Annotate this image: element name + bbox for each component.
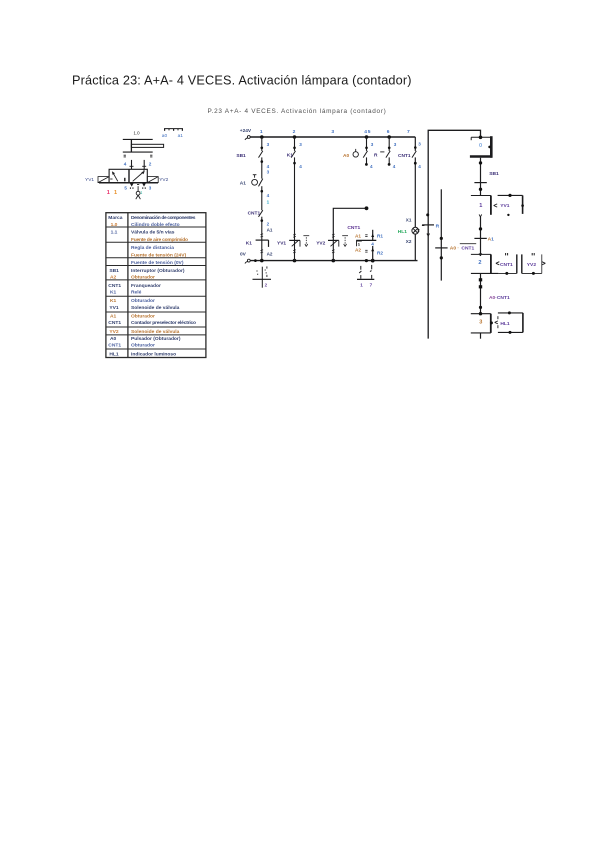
exhaust port 3 (142, 183, 146, 188)
svg-text:A1: A1 (488, 236, 495, 242)
svg-text:3: 3 (479, 320, 482, 326)
svg-text:A1: A1 (110, 314, 117, 320)
svg-text:CNT1: CNT1 (347, 225, 360, 231)
svg-text:Pulsador (Obturador): Pulsador (Obturador) (131, 336, 181, 342)
0V terminal (245, 259, 250, 263)
svg-text:A1: A1 (240, 181, 246, 187)
svg-text:1: 1 (260, 129, 263, 135)
counter wire lower (372, 246, 374, 261)
valve 1.1 body (99, 169, 158, 183)
action CNT1 (496, 253, 522, 275)
counter bar (356, 239, 376, 241)
svg-text:K1: K1 (110, 290, 117, 296)
rung1 wire (261, 157, 263, 178)
svg-text:CNT1: CNT1 (398, 153, 411, 159)
svg-text:K1: K1 (287, 153, 293, 159)
svg-text:YV2: YV2 (316, 240, 325, 246)
rung1 wire bottom (261, 240, 263, 261)
svg-text:YV1: YV1 (85, 177, 94, 183)
svg-text:1.0: 1.0 (134, 130, 141, 135)
svg-text:0: 0 (479, 143, 482, 149)
pipe from valve port 4 (130, 160, 134, 169)
svg-text:7: 7 (407, 129, 410, 135)
YV2 linkage (342, 236, 348, 247)
rung 7 : CNT1 contact + lamp HL1 (398, 137, 425, 261)
svg-text:A2: A2 (355, 248, 361, 253)
svg-text:X1: X1 (406, 217, 412, 222)
svg-text:1.1: 1.1 (111, 230, 118, 236)
svg-text:1: 1 (114, 190, 117, 196)
svg-text:YV2: YV2 (527, 262, 537, 268)
svg-text:Válvula de 5/n vías: Válvula de 5/n vías (131, 230, 175, 236)
rung1 wire top (261, 137, 263, 151)
transition R on feedback (426, 213, 429, 216)
svg-text:A1: A1 (267, 227, 273, 232)
sensor contact A0 (353, 149, 368, 158)
svg-text:R1: R1 (377, 233, 383, 238)
transition a1 (474, 237, 486, 239)
svg-text:5: 5 (368, 129, 371, 135)
svg-text:3: 3 (267, 170, 270, 175)
svg-text:CNT1: CNT1 (108, 283, 121, 289)
step 3 (471, 312, 493, 339)
rung1 wire (261, 186, 263, 210)
svg-text:K1: K1 (110, 298, 117, 304)
svg-text:7: 7 (370, 282, 373, 287)
action YV1 (494, 194, 524, 216)
0V junction dots (254, 259, 375, 263)
step 0 (initial) (470, 136, 492, 158)
preset display (357, 241, 362, 246)
svg-text:2: 2 (478, 260, 481, 266)
svg-text:2: 2 (149, 162, 152, 167)
svg-text:YV2: YV2 (159, 177, 168, 183)
svg-text:HL1: HL1 (398, 229, 407, 235)
svg-text:Franqueador: Franqueador (131, 283, 161, 289)
svg-text:X2: X2 (406, 239, 412, 244)
svg-text:1: 1 (140, 190, 143, 195)
svg-text:SB1: SB1 (489, 171, 499, 177)
svg-text:A1: A1 (355, 233, 361, 238)
valve right cell arrow (133, 169, 145, 181)
svg-text:CNT1: CNT1 (108, 320, 121, 326)
svg-text:Fuente de tensión (0V): Fuente de tensión (0V) (131, 260, 184, 266)
solenoid YV2 box (147, 177, 158, 183)
component table (106, 213, 206, 358)
sensor contact A1 (252, 175, 263, 187)
svg-text:YV2: YV2 (109, 329, 119, 335)
YV1 linkage (303, 236, 309, 247)
svg-text:CNT1: CNT1 (248, 210, 261, 216)
svg-text:3: 3 (267, 142, 270, 147)
rung 2 : K1 contact + YV1 coil (277, 137, 309, 261)
+24V terminal (245, 136, 250, 140)
svg-text:R: R (436, 224, 440, 230)
cylinder port marks (124, 155, 153, 157)
0V rail (250, 260, 417, 262)
svg-text:Práctica 23: A+A- 4 VECES. Act: Práctica 23: A+A- 4 VECES. Activación lá… (72, 74, 412, 88)
svg-text:Obturador: Obturador (131, 275, 155, 281)
svg-text:A0: A0 (343, 153, 349, 159)
svg-text:5: 5 (358, 242, 361, 247)
svg-text:5: 5 (124, 185, 127, 190)
svg-text:A2: A2 (267, 251, 273, 256)
node dot (365, 206, 369, 210)
svg-text:1: 1 (479, 203, 482, 209)
contact CNT1 (412, 151, 416, 158)
valve left cell arrow (110, 171, 125, 181)
feedback wire (428, 130, 480, 338)
svg-text:SB1: SB1 (236, 153, 246, 159)
link step1-step2 (480, 217, 482, 255)
svg-text:Solenoide de válvula: Solenoide de válvula (131, 329, 180, 335)
svg-text:Relé: Relé (131, 290, 142, 296)
solenoid YV1 box (98, 177, 109, 183)
svg-text:SB1: SB1 (109, 268, 119, 274)
contact CNT1 NC (259, 210, 263, 217)
svg-text:1.0: 1.0 (111, 222, 118, 228)
svg-text:0V: 0V (240, 251, 247, 257)
svg-text:3: 3 (299, 142, 302, 147)
rung 6 : reset contact R (374, 137, 397, 169)
cylinder 1.0 (123, 139, 164, 152)
svg-text:3: 3 (394, 142, 397, 147)
svg-text:4: 4 (370, 164, 373, 169)
svg-text:4: 4 (299, 164, 302, 169)
valve solenoid coil YV2 (328, 240, 339, 246)
svg-text:4: 4 (364, 129, 367, 135)
svg-text:4: 4 (418, 164, 421, 169)
counter wire upper (372, 230, 374, 241)
switch SB1 (259, 151, 263, 158)
svg-text:CNT1: CNT1 (108, 343, 121, 349)
svg-text:P.23 A+A- 4 VECES. Activación: P.23 A+A- 4 VECES. Activación lámpara (c… (208, 108, 386, 115)
pipe from valve port 2 (142, 160, 146, 169)
contact K1 (291, 151, 295, 158)
rail junction dots (260, 135, 391, 139)
step 2 (471, 254, 499, 273)
link step2-step3 (480, 273, 482, 313)
svg-text:4: 4 (267, 193, 270, 198)
counter CNT1 (347, 225, 383, 261)
svg-text:CNT1: CNT1 (500, 262, 513, 268)
rung2 wire (294, 157, 296, 240)
GRAFCET chart (417, 130, 545, 338)
contact mirror CNT1 (357, 265, 374, 287)
svg-text:1: 1 (107, 190, 110, 196)
svg-text:3: 3 (331, 129, 334, 135)
svg-text:3: 3 (418, 141, 421, 146)
svg-text:6: 6 (387, 129, 390, 135)
svg-text:Contador preselector eléctrico: Contador preselector eléctrico (131, 320, 196, 326)
svg-text:A0 · CNT1: A0 · CNT1 (450, 246, 475, 252)
svg-text:Obturador: Obturador (131, 314, 155, 320)
rung 4 : sensor A0 contact (343, 137, 374, 169)
+24V rail (250, 136, 415, 138)
svg-text:2: 2 (265, 283, 268, 288)
svg-text:Fuente de aire comprimido: Fuente de aire comprimido (131, 237, 188, 243)
svg-text:Denominación de componentes: Denominación de componentes (131, 215, 196, 221)
wire elbow to node (333, 208, 366, 240)
svg-text:Obturador: Obturador (131, 343, 155, 349)
action HL1 (495, 311, 523, 334)
rung2 wire top (294, 137, 296, 151)
svg-text:4: 4 (124, 162, 127, 167)
rung3 wire bottom (332, 240, 334, 260)
svg-text:A0: A0 (110, 336, 117, 342)
svg-text:4: 4 (267, 164, 270, 169)
svg-text:Regla de distancia: Regla de distancia (131, 245, 174, 251)
svg-text:R2: R2 (377, 250, 383, 255)
electrical ladder diagram (236, 128, 417, 264)
svg-text:+24V: +24V (240, 128, 252, 134)
action YV2 (522, 253, 546, 275)
svg-text:Solenoide de válvula: Solenoide de válvula (131, 305, 180, 311)
valve solenoid coil YV1 (289, 240, 300, 246)
svg-text:3: 3 (149, 185, 152, 190)
svg-text:Marca: Marca (108, 215, 122, 221)
rung 3 : YV2 coil (316, 206, 368, 260)
svg-text:a1: a1 (178, 133, 184, 139)
svg-text:1: 1 (360, 282, 363, 287)
exhaust port 5 (130, 183, 134, 188)
contact mirror K1 (253, 266, 272, 287)
svg-text:K1: K1 (246, 240, 252, 246)
svg-text:Interruptor (Obturador): Interruptor (Obturador) (131, 268, 185, 274)
svg-text:4: 4 (393, 164, 396, 169)
step 1 (471, 196, 491, 217)
svg-text:a0: a0 (162, 133, 168, 139)
svg-text:2: 2 (267, 222, 270, 227)
svg-text:R: R (374, 153, 378, 159)
svg-text:1: 1 (267, 200, 270, 205)
wire break marks (261, 234, 264, 237)
rung2 wire bottom (294, 240, 296, 260)
contact R (386, 151, 390, 158)
lamp HL1 (412, 227, 419, 234)
air supply port 1 (136, 185, 141, 200)
relay coil K1 (256, 240, 269, 247)
svg-text:Indicador luminoso: Indicador luminoso (131, 351, 176, 357)
svg-text:YV1: YV1 (500, 203, 510, 209)
svg-text:YV1: YV1 (109, 305, 119, 311)
svg-text:HL1: HL1 (109, 351, 119, 357)
svg-text:Obturador: Obturador (131, 298, 155, 304)
svg-text:Cilindro doble efecto: Cilindro doble efecto (131, 222, 180, 228)
svg-text:HL1: HL1 (500, 321, 510, 327)
svg-text:Fuente de tensión (24V): Fuente de tensión (24V) (131, 252, 187, 258)
svg-text:A2: A2 (110, 275, 117, 281)
svg-text:4: 4 (371, 241, 374, 246)
svg-text:YV1: YV1 (277, 240, 286, 246)
link step0-transition (480, 158, 482, 196)
distance rule (164, 129, 183, 131)
svg-text:2: 2 (293, 129, 296, 135)
transition A0.NOT-CNT1 (435, 247, 447, 249)
loop branch wire (440, 189, 442, 280)
svg-text:A0·CNT1: A0·CNT1 (489, 295, 510, 301)
rung1 wire (261, 217, 263, 240)
svg-text:3: 3 (371, 142, 374, 147)
